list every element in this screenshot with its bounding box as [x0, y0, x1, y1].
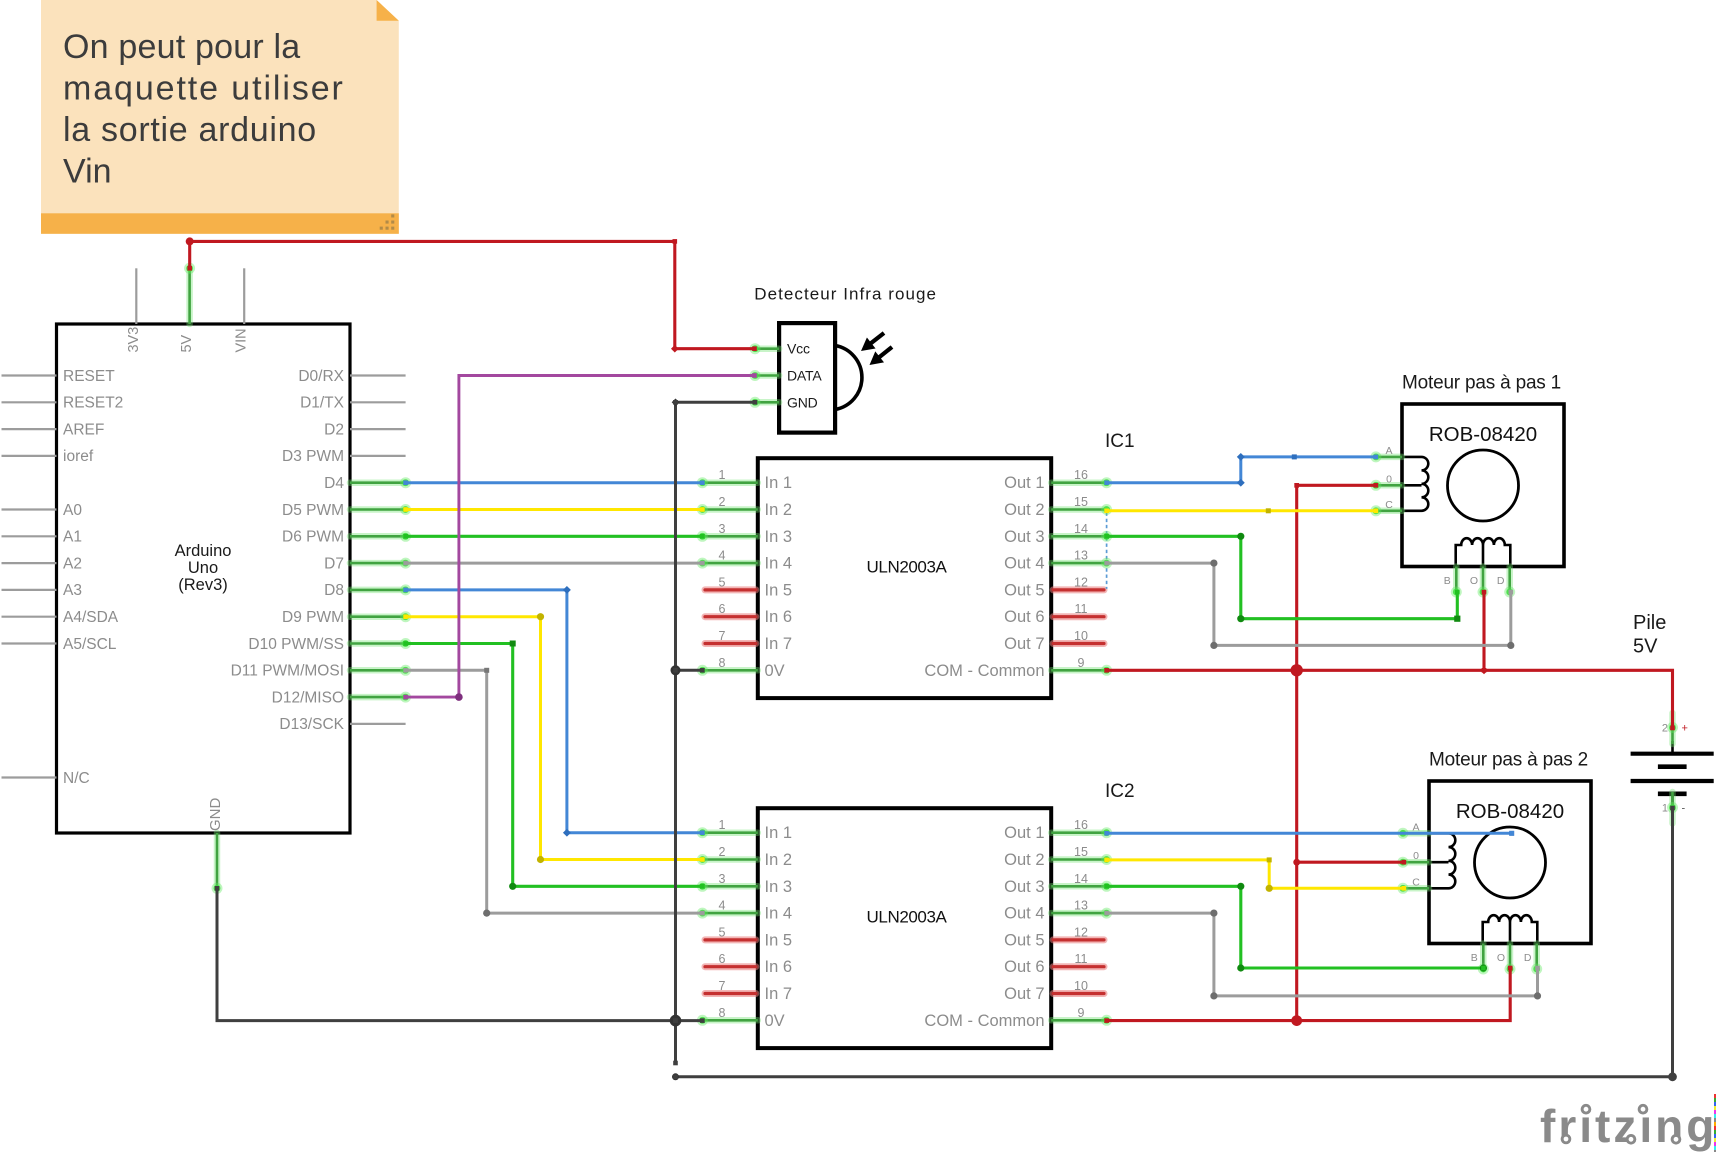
svg-text:15: 15: [1074, 845, 1088, 859]
svg-text:4: 4: [719, 549, 726, 563]
svg-text:In 7: In 7: [765, 635, 793, 653]
svg-text:Out 2: Out 2: [1004, 501, 1044, 519]
svg-text:On peut pour la: On peut pour la: [63, 28, 300, 66]
svg-text:D4: D4: [324, 475, 344, 492]
svg-text:Out 3: Out 3: [1004, 528, 1044, 546]
svg-text:DATA: DATA: [787, 368, 822, 384]
svg-text:2: 2: [1662, 723, 1668, 735]
svg-text:RESET: RESET: [63, 368, 115, 385]
svg-text:In 3: In 3: [765, 878, 793, 896]
svg-text:Out 4: Out 4: [1004, 555, 1044, 573]
svg-text:1: 1: [719, 818, 726, 832]
svg-text:0: 0: [1386, 473, 1392, 485]
svg-text:14: 14: [1074, 522, 1088, 536]
svg-text:16: 16: [1074, 468, 1088, 482]
svg-text:Detecteur Infra rouge: Detecteur Infra rouge: [754, 284, 937, 303]
svg-text:C: C: [1412, 876, 1420, 888]
svg-text:IC1: IC1: [1105, 431, 1135, 452]
svg-text:D7: D7: [324, 555, 344, 572]
svg-text:14: 14: [1074, 872, 1088, 886]
svg-text:5: 5: [719, 575, 726, 589]
svg-text:9: 9: [1078, 1006, 1085, 1020]
svg-text:ULN2003A: ULN2003A: [867, 558, 948, 577]
svg-text:D0/RX: D0/RX: [298, 368, 344, 385]
svg-text:Out 4: Out 4: [1004, 905, 1044, 923]
svg-text:In 4: In 4: [765, 905, 793, 923]
svg-text:D12/MISO: D12/MISO: [272, 689, 344, 706]
svg-text:-: -: [1682, 803, 1686, 815]
svg-text:Moteur pas à pas 1: Moteur pas à pas 1: [1402, 373, 1561, 394]
svg-text:In 4: In 4: [765, 555, 793, 573]
svg-text:Pile: Pile: [1633, 612, 1666, 634]
svg-text:3: 3: [719, 522, 726, 536]
svg-text:4: 4: [719, 899, 726, 913]
svg-text:13: 13: [1074, 899, 1088, 913]
svg-text:A3: A3: [63, 582, 82, 599]
svg-text:A0: A0: [63, 502, 82, 519]
svg-text:D2: D2: [324, 421, 344, 438]
svg-text:11: 11: [1075, 952, 1088, 966]
svg-text:Out 7: Out 7: [1004, 985, 1044, 1003]
svg-text:D13/SCK: D13/SCK: [279, 716, 344, 733]
svg-text:COM - Common: COM - Common: [924, 1012, 1044, 1030]
svg-text:COM - Common: COM - Common: [924, 662, 1044, 680]
svg-text:3V3: 3V3: [126, 327, 142, 353]
svg-text:D5 PWM: D5 PWM: [282, 502, 344, 519]
svg-text:B: B: [1444, 575, 1451, 587]
svg-text:Out 2: Out 2: [1004, 851, 1044, 869]
svg-text:RESET2: RESET2: [63, 395, 123, 412]
svg-text:ioref: ioref: [63, 448, 94, 465]
svg-text:0: 0: [1413, 850, 1419, 862]
svg-text:8: 8: [719, 656, 726, 670]
svg-text:12: 12: [1074, 925, 1088, 939]
svg-text:A: A: [1385, 445, 1392, 457]
svg-text:D11 PWM/MOSI: D11 PWM/MOSI: [231, 663, 344, 680]
svg-text:Out 5: Out 5: [1004, 931, 1044, 949]
svg-text:D: D: [1497, 575, 1505, 587]
svg-text:Out 7: Out 7: [1004, 635, 1044, 653]
svg-text:5: 5: [719, 925, 726, 939]
svg-text:B: B: [1471, 952, 1478, 964]
svg-text:A5/SCL: A5/SCL: [63, 636, 117, 653]
svg-text:Out 1: Out 1: [1004, 824, 1044, 842]
svg-text:1: 1: [719, 468, 726, 482]
svg-text:1: 1: [1662, 803, 1668, 815]
svg-text:D: D: [1524, 952, 1532, 964]
svg-text:13: 13: [1074, 549, 1088, 563]
svg-text:D9 PWM: D9 PWM: [282, 609, 344, 626]
svg-text:D6 PWM: D6 PWM: [282, 529, 344, 546]
svg-text:O: O: [1470, 575, 1478, 587]
svg-text:11: 11: [1075, 602, 1088, 616]
svg-text:Vcc: Vcc: [787, 341, 810, 357]
svg-text:In 1: In 1: [765, 474, 793, 492]
svg-text:In 3: In 3: [765, 528, 793, 546]
svg-text:C: C: [1385, 499, 1393, 511]
svg-text:6: 6: [719, 602, 726, 616]
svg-text:0V: 0V: [765, 1012, 785, 1030]
svg-text:3: 3: [719, 872, 726, 886]
svg-text:ROB-08420: ROB-08420: [1456, 800, 1564, 823]
svg-text:Out 6: Out 6: [1004, 958, 1044, 976]
svg-text:In 1: In 1: [765, 824, 793, 842]
svg-text:8: 8: [719, 1006, 726, 1020]
svg-text:ROB-08420: ROB-08420: [1429, 423, 1537, 446]
svg-text:+: +: [1682, 723, 1688, 735]
svg-text:10: 10: [1074, 629, 1088, 643]
svg-text:2: 2: [719, 495, 726, 509]
svg-text:AREF: AREF: [63, 421, 104, 438]
svg-text:Vin: Vin: [63, 153, 112, 191]
svg-text:In 5: In 5: [765, 581, 793, 599]
svg-text:Out 3: Out 3: [1004, 878, 1044, 896]
svg-text:In 2: In 2: [765, 501, 793, 519]
svg-text:A1: A1: [63, 529, 82, 546]
svg-text:(Rev3): (Rev3): [178, 576, 228, 594]
svg-text:Out 6: Out 6: [1004, 608, 1044, 626]
svg-text:N/C: N/C: [63, 770, 90, 787]
svg-text:In 7: In 7: [765, 985, 793, 1003]
svg-text:D3 PWM: D3 PWM: [282, 448, 344, 465]
svg-text:15: 15: [1074, 495, 1088, 509]
svg-text:7: 7: [719, 979, 726, 993]
svg-text:VIN: VIN: [234, 328, 250, 352]
svg-text:9: 9: [1078, 656, 1085, 670]
svg-text:10: 10: [1074, 979, 1088, 993]
svg-text:D10 PWM/SS: D10 PWM/SS: [248, 636, 344, 653]
svg-text:Out 5: Out 5: [1004, 581, 1044, 599]
svg-text:0V: 0V: [765, 662, 785, 680]
svg-text:Out 1: Out 1: [1004, 474, 1044, 492]
svg-text:In 6: In 6: [765, 958, 793, 976]
svg-text:Arduino: Arduino: [175, 542, 232, 560]
svg-text:In 6: In 6: [765, 608, 793, 626]
svg-text:6: 6: [719, 952, 726, 966]
svg-text:IC2: IC2: [1105, 781, 1135, 802]
svg-text:maquette utiliser: maquette utiliser: [63, 70, 345, 108]
svg-text:In 2: In 2: [765, 851, 793, 869]
svg-text:A: A: [1412, 821, 1419, 833]
svg-text:5V: 5V: [1633, 636, 1658, 658]
svg-text:12: 12: [1074, 575, 1088, 589]
svg-text:5V: 5V: [179, 334, 195, 352]
svg-text:A4/SDA: A4/SDA: [63, 609, 119, 626]
svg-text:la sortie arduino: la sortie arduino: [63, 111, 317, 149]
svg-text:In 5: In 5: [765, 931, 793, 949]
svg-text:D1/TX: D1/TX: [300, 395, 345, 412]
svg-text:GND: GND: [207, 798, 224, 832]
svg-text:Uno: Uno: [188, 559, 218, 577]
svg-text:O: O: [1497, 952, 1505, 964]
svg-text:D8: D8: [324, 582, 344, 599]
svg-text:7: 7: [719, 629, 726, 643]
svg-text:ULN2003A: ULN2003A: [867, 908, 948, 927]
svg-text:Moteur pas à pas 2: Moteur pas à pas 2: [1429, 750, 1588, 771]
svg-text:2: 2: [719, 845, 726, 859]
svg-text:GND: GND: [787, 394, 818, 410]
svg-text:16: 16: [1074, 818, 1088, 832]
svg-text:A2: A2: [63, 555, 82, 572]
